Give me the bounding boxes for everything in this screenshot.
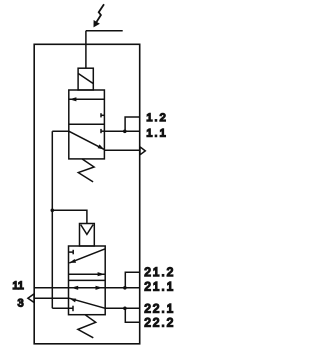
V2 blocked port tick (top-left) [69,250,74,255]
wire 1.2 [125,117,140,131]
wire top stub [86,30,123,32]
pilot actuator Z1 [80,224,95,247]
wire port 11 [34,287,68,289]
valve V2 body [69,246,106,315]
port 3 exhaust arrow (open, left) [28,294,34,303]
wire pilot branch [52,210,87,223]
svg-text:11: 11 [12,280,23,292]
V2 diagonal arrow (top square) [69,249,105,263]
svg-text:22.2: 22.2 [144,316,175,330]
exhaust arrow (open, right) [140,147,145,155]
wire V1 inlet to riser [52,130,69,132]
V2 double arrow (bottom square) [69,286,106,290]
wire 1.1 [104,130,139,132]
valve V1 body [69,90,105,159]
svg-text:1.2: 1.2 [146,112,168,124]
junction dot 22.1 [123,307,127,311]
wire 21.1 [105,287,140,289]
spring V1 [78,159,94,182]
svg-text:21.2: 21.2 [144,265,175,279]
V1 blocked port tick (top square) [101,113,104,117]
blocked port bar [72,306,74,312]
V1 vent diagonal [69,131,105,149]
junction dot pilot tap [51,209,55,213]
V1 blocked port tick (bottom square) [101,129,104,133]
svg-text:3: 3 [18,298,24,310]
V1 flow arrow (left) [69,97,104,101]
wire riser (long vertical) [51,131,53,308]
svg-text:22.1: 22.1 [144,302,175,316]
wire port 3 [34,297,69,299]
solenoid U1 [78,68,93,90]
wire solenoid lead [85,31,87,68]
wire 21.2 [125,272,139,288]
spring V2 [78,315,96,338]
lightning bolt (electrical signal) [94,4,105,27]
junction dot 1.1 [123,130,127,134]
V2 diagonal arrow (bottom square) [69,298,105,308]
wire exhaust V1 [104,149,139,151]
enclosure box [34,44,140,344]
wire 22.2 [125,308,139,322]
V2 flow arrow right (top square) [69,272,106,276]
svg-text:21.1: 21.1 [144,280,175,294]
junction dot 21.1 [123,286,127,290]
wire 22.1 [105,307,140,309]
svg-text:1.1: 1.1 [146,128,168,140]
wire pilot 12 to blocked port [52,307,73,309]
